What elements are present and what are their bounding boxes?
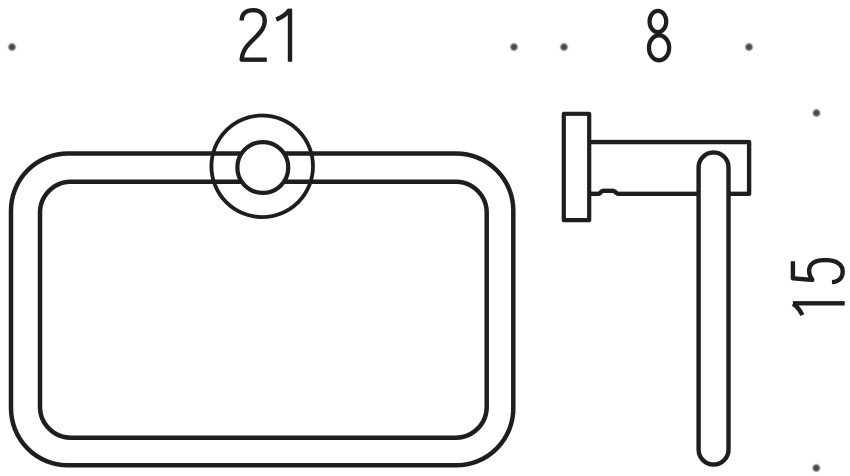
dimension text 8: top loop — [650, 11, 667, 32]
front view: ring inner outline (tube inner wall) — [40, 182, 487, 438]
dimension dot: left end of 21 — [8, 43, 15, 50]
rotated digit 1 — [793, 303, 845, 315]
dimension dot: right end of 21 — [510, 43, 517, 50]
dimension dot: right end of 8 — [745, 43, 752, 50]
dimension dot: left end of 8 — [560, 43, 567, 50]
front view: mount rosette outer circle — [211, 116, 313, 218]
side view: wall plate — [564, 114, 589, 220]
front view: ring outer outline (rounded rect tube outer wall) — [11, 154, 513, 466]
dimension dot: bottom end of 15 — [813, 464, 820, 471]
dimension text 21: digit 1 — [276, 9, 290, 62]
rotated digit 5 — [793, 260, 843, 282]
side view: hanging ring tube (stadium, covers arm bottom line) — [699, 152, 729, 464]
dimension text 15 (rotated 90deg CCW) — [793, 260, 845, 315]
dimension text 21: digit 2 — [242, 10, 267, 60]
side view: arm outline with set-screw bump — [589, 142, 749, 194]
dimension text 8: bottom loop — [649, 35, 669, 60]
dimension dot: top end of 15 — [813, 109, 820, 116]
front view: mount hub inner circle (covers tube lines) — [237, 142, 288, 193]
